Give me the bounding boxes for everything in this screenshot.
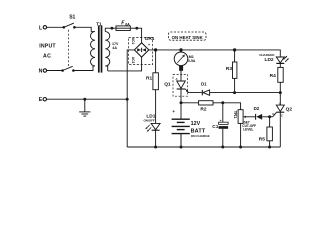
- node C1 tap: [221, 101, 224, 104]
- node gate R5: [268, 115, 271, 118]
- node fuse right: [135, 27, 138, 30]
- wire TR1 to bottom rail: [240, 123, 242, 147]
- node line D1 R3 Q2: [210, 92, 281, 94]
- label 17V 4A: [112, 42, 119, 50]
- battery BATT 12V: [172, 119, 190, 133]
- wire LD1 to bottom rail: [155, 130, 157, 147]
- Q1 gate wire: [185, 89, 201, 93]
- wire E to minus rail: [47, 98, 128, 100]
- LED LD1: [151, 123, 160, 130]
- terminal E: [43, 98, 46, 101]
- bottom rail: [127, 146, 280, 148]
- wire secondary bottom to bridge AC2: [108, 57, 142, 71]
- node minus rail junction: [126, 98, 129, 101]
- svg-text:INPUT: INPUT: [39, 44, 56, 50]
- diode D1: [202, 90, 209, 95]
- svg-text:+: +: [220, 119, 222, 123]
- LD2 emission arrows: [284, 56, 289, 62]
- svg-text:4A: 4A: [112, 46, 117, 50]
- wire D2 to gate node: [262, 116, 273, 118]
- switch S1 pole a: [64, 23, 74, 27]
- label SET CUT-OFF LEVEL: [242, 120, 256, 131]
- svg-text:D1: D1: [201, 82, 207, 87]
- label ON HEAT SINK box: [169, 32, 207, 40]
- node TR1 bottom: [239, 146, 242, 149]
- svg-text:ON HEAT SINK: ON HEAT SINK: [172, 35, 204, 40]
- wire Q2 cathode to bottom rail: [279, 112, 281, 147]
- LD1 emission arrows: [145, 125, 151, 132]
- label F 6A: [121, 20, 130, 26]
- wire S1 to T1 primary top: [74, 27, 91, 31]
- svg-text:E: E: [39, 97, 43, 103]
- wire bridge minus down: [127, 50, 134, 147]
- node R5 bottom: [268, 146, 271, 149]
- M1 terminal pad: [179, 66, 183, 71]
- wire to R5: [269, 117, 271, 127]
- heatsink dashed box Q1: [173, 75, 188, 97]
- transformer T1 core: [99, 26, 102, 73]
- bridge GR1 internal arrows: [137, 48, 146, 52]
- diode D2: [256, 114, 263, 120]
- label 12V BATT: [191, 121, 206, 135]
- svg-text:C: C: [281, 113, 283, 117]
- wire fuse to bridge AC1: [137, 28, 142, 43]
- node battery plus: [180, 101, 183, 104]
- label INPUT AC: [39, 44, 56, 60]
- wire to C1: [222, 103, 224, 122]
- heatsink dashed box GR1: [129, 38, 153, 65]
- svg-text:AC1: AC1: [131, 38, 135, 45]
- svg-text:S1: S1: [69, 14, 75, 20]
- transformer T1 primary winding: [91, 32, 96, 66]
- svg-text:TR1: TR1: [233, 111, 238, 120]
- node S1a right: [73, 26, 76, 29]
- wire N to S1: [47, 70, 63, 72]
- svg-text:R4: R4: [270, 73, 276, 79]
- capacitor C1: [219, 122, 229, 129]
- wire to fuse: [112, 27, 116, 29]
- terminal N: [43, 69, 46, 72]
- svg-text:L: L: [39, 25, 43, 31]
- wire R5 to bottom rail: [269, 141, 271, 147]
- svg-text:ON/OFF: ON/OFF: [143, 118, 154, 122]
- svg-text:12V: 12V: [191, 121, 201, 127]
- node R1 tap: [154, 48, 157, 51]
- node ground junction: [83, 98, 86, 101]
- svg-text:6A: 6A: [125, 23, 130, 27]
- node C1 bottom: [221, 146, 224, 149]
- SCR Q2: [276, 105, 284, 112]
- Q2 gate wire: [273, 112, 277, 116]
- wire secondary top to fuse: [105, 28, 112, 31]
- resistor R1: [153, 73, 159, 90]
- ammeter M1: [174, 52, 188, 66]
- svg-text:AC2: AC2: [131, 57, 135, 64]
- wire battery to R2: [181, 102, 199, 104]
- svg-text:C1: C1: [212, 124, 218, 130]
- wire L to S1: [47, 26, 64, 28]
- svg-text:R1: R1: [146, 76, 152, 82]
- wire Q1 cathode to battery: [180, 89, 182, 119]
- svg-text:T1: T1: [96, 22, 102, 27]
- resistor R2: [199, 101, 213, 105]
- terminal L: [43, 26, 46, 29]
- node S1b right: [72, 69, 75, 72]
- wire C1 to bottom rail: [222, 129, 224, 147]
- switch S1 linkage: [68, 30, 70, 66]
- svg-text:LEVEL: LEVEL: [243, 128, 253, 132]
- svg-text:LD2: LD2: [265, 57, 274, 63]
- node R4 Q2 junction: [279, 91, 282, 94]
- node S1b left: [61, 69, 64, 72]
- node S1a left: [63, 26, 66, 29]
- node fuse left: [111, 27, 114, 30]
- node M1 tap: [179, 48, 182, 51]
- wire LD2 to R4: [279, 63, 281, 67]
- node R3 bottom: [233, 91, 236, 94]
- wire fuse to node: [130, 27, 137, 29]
- top plus rail: [149, 50, 280, 57]
- transformer T1 secondary winding: [105, 32, 110, 71]
- wire rail to M1: [180, 50, 182, 52]
- wire rail to R1: [155, 50, 157, 73]
- wire battery to bottom rail: [180, 134, 182, 147]
- svg-text:D2: D2: [254, 106, 260, 111]
- node R3 tap: [233, 48, 236, 51]
- wire R4 to Q2: [279, 82, 281, 105]
- svg-text:CHARGED: CHARGED: [259, 53, 275, 57]
- node LD1 bottom: [154, 146, 157, 149]
- ground: [79, 99, 90, 116]
- svg-text:A: A: [176, 77, 178, 81]
- resistor R5: [267, 127, 273, 141]
- resistor R3: [233, 62, 237, 78]
- svg-text:0-5A: 0-5A: [188, 59, 196, 63]
- svg-text:Q2: Q2: [286, 106, 293, 112]
- svg-text:+: +: [148, 43, 150, 47]
- node battery bottom: [180, 146, 183, 149]
- wire rail to R3: [234, 50, 236, 62]
- svg-text:+: +: [172, 109, 175, 114]
- svg-text:N: N: [39, 69, 43, 75]
- SCR Q1: [177, 81, 186, 89]
- svg-text:ON CHARGE: ON CHARGE: [191, 134, 210, 138]
- svg-text:A: A: [279, 101, 281, 105]
- svg-text:GR1: GR1: [145, 36, 155, 42]
- resistor R4: [278, 67, 283, 82]
- svg-text:G: G: [272, 112, 274, 116]
- fuse F 6A: [116, 26, 130, 31]
- svg-text:AC: AC: [43, 53, 52, 59]
- LED LD2: [276, 57, 284, 63]
- wire R3 to node line: [234, 78, 236, 92]
- wire R2 to TR1: [213, 103, 241, 110]
- svg-text:R2: R2: [200, 106, 206, 112]
- wire R1 to LD1: [155, 90, 157, 124]
- svg-text:Q1: Q1: [164, 81, 171, 87]
- svg-text:R3: R3: [226, 66, 232, 72]
- trimmer TR1: [238, 110, 255, 124]
- bridge rectifier GR1: [134, 43, 148, 57]
- wire S1b to T1 primary bottom: [73, 66, 93, 71]
- svg-text:R5: R5: [259, 136, 265, 142]
- switch S1 pole b: [63, 66, 73, 70]
- wire M1 to Q1: [180, 66, 182, 81]
